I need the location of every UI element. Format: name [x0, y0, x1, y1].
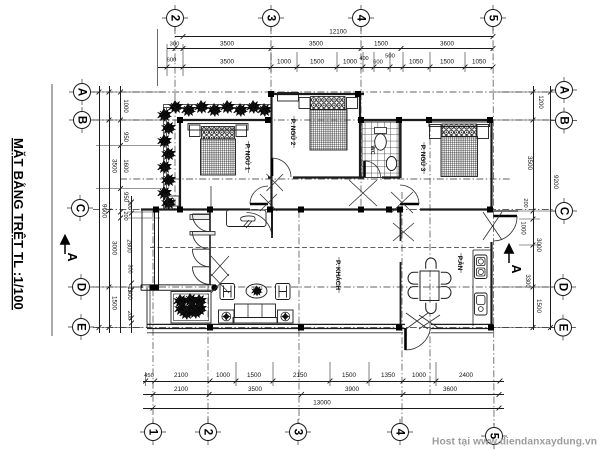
svg-text:C: C	[74, 204, 86, 212]
column	[298, 325, 304, 331]
column	[426, 117, 432, 123]
balcony parapet top	[163, 104, 271, 106]
svg-text:2: 2	[169, 15, 181, 21]
terrace planter box	[171, 292, 211, 324]
svg-text:P. KHÁCH: P. KHÁCH	[334, 260, 343, 290]
column	[488, 325, 494, 331]
grid line 4a mid (vertical)	[429, 125, 431, 395]
grid bubble 3 top	[258, 5, 284, 31]
svg-text:600: 600	[167, 58, 177, 64]
folding door hall arcs	[192, 214, 210, 232]
svg-text:3500: 3500	[526, 156, 533, 171]
dining chair bottom	[426, 303, 436, 314]
svg-text:1500: 1500	[247, 372, 262, 379]
balcony plants left column	[157, 108, 172, 122]
svg-text:1000: 1000	[216, 372, 231, 379]
folding door leaf bar lower	[190, 232, 215, 236]
grid line A (horizontal)	[93, 91, 553, 93]
grid line 2 top (vertical)	[174, 27, 176, 209]
left chain 1000/950/1600/950/200	[120, 86, 122, 333]
sofa side table left	[219, 310, 235, 323]
grid line 4 bottom (vertical)	[401, 192, 403, 425]
svg-text:B: B	[558, 116, 570, 124]
round column	[211, 285, 217, 291]
bed B3 side table left	[430, 125, 442, 139]
svg-text:3600: 3600	[440, 41, 455, 48]
grid bubble A right	[551, 77, 577, 103]
svg-text:4: 4	[394, 429, 406, 436]
grid line 2 bottom (vertical)	[207, 284, 209, 425]
svg-text:P. NGỦ 1: P. NGỦ 1	[244, 144, 253, 171]
bed B2 wardrobe	[278, 93, 299, 102]
grid line 4 top (vertical)	[360, 27, 362, 211]
bed B3 side table right	[477, 125, 489, 139]
grid bubble 5 bottom	[481, 423, 507, 449]
svg-text:1350: 1350	[381, 372, 396, 379]
sofa	[235, 304, 276, 318]
door X hall 2	[211, 274, 229, 293]
wall top main (B line) right part	[359, 119, 493, 121]
grid bubble C left	[67, 195, 93, 221]
svg-text:300: 300	[127, 264, 133, 273]
door X entry 1	[406, 313, 428, 329]
wall bedroom2 top	[268, 93, 364, 95]
bed B3 headboard	[429, 122, 490, 127]
svg-text:D: D	[557, 283, 569, 291]
door WC arc	[365, 161, 381, 177]
right chain 1200/3500/200/1000/3000/3300/1500	[533, 86, 535, 330]
bottom dimension row 450/2100/1000/1500/2150/1500/1350/1000/2400	[143, 381, 504, 383]
svg-text:2100: 2100	[174, 372, 189, 379]
dimension row 300/3500/3500/1500/3600	[167, 48, 493, 50]
wall east (grid 5)	[490, 120, 492, 211]
svg-text:C: C	[558, 207, 570, 215]
bed B2 mattress	[310, 110, 347, 151]
grid line E (horizontal)	[93, 327, 553, 329]
svg-text:3600: 3600	[443, 386, 458, 393]
main entry door leaf	[404, 328, 407, 350]
grid bubble 1 bottom	[140, 419, 166, 445]
svg-text:A: A	[76, 88, 88, 96]
door X porch right	[483, 212, 502, 240]
wall hall west outer	[141, 210, 143, 289]
svg-text:A: A	[509, 264, 523, 273]
WC toilet tank	[375, 128, 387, 134]
svg-text:2100: 2100	[174, 386, 189, 393]
svg-text:2400: 2400	[459, 372, 474, 379]
dimension row total 12100	[175, 36, 493, 38]
cabinet object	[241, 216, 255, 221]
column	[207, 325, 213, 331]
grid bubble A left	[69, 79, 95, 105]
svg-text:A: A	[558, 86, 570, 94]
svg-text:2: 2	[202, 429, 214, 435]
grid line C (horizontal)	[93, 209, 553, 211]
section marker A left	[61, 236, 69, 255]
dining table	[420, 271, 439, 301]
column	[396, 117, 402, 123]
WC toilet bowl	[375, 134, 387, 150]
WC tiled floor	[362, 122, 399, 178]
column	[177, 117, 183, 123]
svg-text:1600: 1600	[122, 159, 128, 173]
armchair left	[220, 284, 235, 300]
armchair right	[276, 284, 291, 300]
grid line 3 bottom (vertical)	[298, 211, 300, 425]
grid bubble B right	[551, 108, 577, 134]
bed B1 mattress	[201, 139, 236, 175]
bed B1 side table left	[190, 125, 201, 137]
door X corridor-living	[260, 194, 277, 211]
coffee table with plant	[246, 284, 267, 298]
bed B3 pillows	[442, 124, 477, 137]
svg-text:3500: 3500	[248, 386, 263, 393]
grid line 5 (vertical)	[493, 27, 494, 425]
closet line bedroom1	[210, 186, 212, 208]
bed B3 mattress	[441, 137, 478, 177]
svg-text:E: E	[557, 324, 569, 332]
svg-text:B: B	[76, 116, 88, 124]
svg-text:200: 200	[522, 198, 528, 207]
WC washbasin	[386, 157, 396, 171]
bottom dimension row 2100/3500/3900/3600	[143, 394, 504, 396]
svg-text:MẶT BẰNG TRỆT TL :1/100: MẶT BẰNG TRỆT TL :1/100	[11, 138, 26, 310]
svg-text:1050: 1050	[409, 59, 424, 66]
column	[358, 207, 364, 213]
column	[207, 207, 213, 213]
left chain 3500/3000/1500	[109, 86, 111, 333]
step edge below south wall	[147, 332, 403, 334]
dining chairs left	[408, 272, 418, 284]
terrace west edge below D	[146, 288, 148, 328]
wall D line hall south	[141, 284, 216, 286]
svg-text:4: 4	[355, 15, 367, 22]
column	[386, 207, 392, 213]
svg-text:9200: 9200	[552, 175, 559, 190]
svg-text:1500: 1500	[535, 299, 542, 314]
door X hall 1	[211, 256, 229, 276]
wall C line (y=209.5)	[141, 208, 250, 210]
column	[177, 207, 183, 213]
wall bed1/bed2 (grid 3)	[270, 94, 272, 209]
grid bubble D left	[68, 274, 94, 300]
svg-text:13000: 13000	[313, 400, 331, 407]
svg-text:3: 3	[292, 429, 304, 435]
bed B1 pillows	[202, 127, 235, 140]
svg-text:P.ĂN: P.ĂN	[456, 256, 465, 271]
wall corridor south (y=177)	[268, 176, 272, 178]
svg-text:1500: 1500	[310, 59, 325, 66]
grid bubble 2 bottom	[195, 419, 221, 445]
grid bubble 2 top	[162, 5, 188, 31]
svg-text:2150: 2150	[293, 372, 308, 379]
bed B2 side table left	[299, 98, 310, 109]
svg-text:600: 600	[373, 60, 383, 66]
svg-text:5: 5	[487, 15, 499, 22]
bed B2 side table right	[347, 98, 358, 109]
grid bubble B left	[69, 107, 95, 133]
column	[298, 207, 304, 213]
column	[153, 207, 159, 213]
svg-text:1000: 1000	[412, 372, 427, 379]
svg-text:200: 200	[126, 200, 132, 209]
column	[265, 117, 271, 123]
svg-text:3500: 3500	[111, 159, 118, 174]
svg-text:200: 200	[122, 211, 128, 220]
grid bubble E right	[550, 315, 576, 341]
svg-text:3500: 3500	[220, 41, 235, 48]
svg-text:1050: 1050	[472, 59, 487, 66]
door corridor-living lower arc	[247, 213, 273, 239]
door corridor-living (in C wall) leaf	[250, 203, 268, 206]
left chain 9600	[99, 86, 101, 333]
grid bubble C right	[551, 198, 577, 224]
svg-text:1500: 1500	[440, 59, 455, 66]
wall hall east (folding door wall)	[209, 212, 211, 285]
svg-text:3500: 3500	[309, 41, 324, 48]
door X dining opening	[393, 223, 414, 241]
grid bubble D right	[550, 274, 576, 300]
column	[267, 207, 273, 213]
svg-text:WC: WC	[369, 146, 375, 155]
grid line mid-corridor	[120, 178, 510, 180]
column	[397, 207, 403, 213]
svg-text:A: A	[65, 252, 79, 261]
svg-text:300: 300	[170, 42, 180, 48]
dining chairs right	[441, 272, 451, 284]
svg-text:2800: 2800	[126, 239, 132, 253]
door corridor-living lower leaf	[271, 213, 273, 239]
column	[153, 285, 159, 291]
grid bubble 3 bottom	[285, 419, 311, 445]
overhang dashed line	[150, 247, 491, 249]
section marker A right	[505, 245, 513, 264]
column	[487, 117, 493, 123]
svg-text:1000: 1000	[520, 221, 526, 235]
svg-text:9600: 9600	[101, 204, 108, 219]
svg-text:E: E	[75, 323, 87, 331]
door bedroom3 leaf	[400, 203, 419, 206]
bottom dimension row total 13000	[143, 408, 504, 410]
sofa side table right	[278, 310, 294, 323]
kitchen sink	[475, 293, 488, 315]
porch edge top right	[493, 210, 518, 212]
wall bed2/WC (grid 4)	[359, 94, 361, 178]
svg-text:P. NGỦ 3: P. NGỦ 3	[419, 145, 428, 172]
porch door right arc	[494, 216, 518, 241]
kitchen counter edge	[472, 250, 474, 326]
main entry door arc	[406, 328, 431, 351]
door bedroom2 leaf	[271, 158, 274, 176]
right chain 9200	[550, 86, 552, 330]
svg-text:1500: 1500	[374, 41, 389, 48]
wall top main (B line) left part	[178, 119, 272, 121]
wall WC east	[399, 120, 401, 178]
bed B2 pillows	[311, 97, 346, 110]
balcony plants top row	[168, 100, 183, 114]
door bedroom2 arc	[272, 158, 291, 177]
door X bedroom2	[267, 174, 284, 191]
svg-text:1000: 1000	[343, 59, 358, 66]
svg-text:3300: 3300	[524, 274, 530, 288]
right extension lines	[496, 91, 556, 93]
grid bubble E left	[68, 314, 94, 340]
column	[487, 207, 493, 213]
svg-text:1500: 1500	[342, 372, 357, 379]
grid bubble 4 top	[348, 5, 374, 31]
planter pot at balcony end	[164, 196, 180, 206]
svg-text:3900: 3900	[345, 386, 360, 393]
svg-text:1200: 1200	[537, 95, 543, 109]
kitchen stove	[475, 255, 488, 279]
svg-text:1500: 1500	[111, 296, 118, 311]
door bedroom3 arc	[400, 185, 419, 204]
wall bottom (E line)	[147, 323, 405, 325]
wall hall west inner double	[154, 210, 156, 289]
svg-text:D: D	[75, 283, 87, 291]
door X bedroom3	[391, 192, 413, 213]
svg-text:P. NGỦ 2: P. NGỦ 2	[289, 119, 298, 146]
column	[396, 325, 402, 331]
svg-text:400: 400	[359, 56, 368, 62]
bed B1 side table right	[236, 125, 247, 137]
column	[358, 117, 364, 123]
bed B1 headboard	[188, 124, 248, 131]
svg-text:12100: 12100	[329, 29, 347, 36]
bottom dimension extension lines	[145, 372, 147, 386]
left extension lines	[96, 91, 163, 93]
door X entry 2	[419, 315, 440, 329]
grid line B (horizontal)	[93, 119, 553, 121]
grid bubble 4 bottom	[387, 419, 413, 445]
svg-text:1000: 1000	[277, 59, 292, 66]
svg-text:1200: 1200	[126, 286, 132, 300]
door corridor-living arc	[250, 186, 268, 204]
svg-text:3000: 3000	[111, 241, 118, 256]
svg-text:3: 3	[265, 15, 277, 21]
door WC leaf	[363, 161, 366, 177]
dimension row 600/3500/1000/1500/1000/400/600/500/1050/1500/1050	[158, 67, 493, 69]
balcony parapet left	[163, 105, 165, 209]
section line A-A vertical trace left	[51, 84, 53, 336]
column	[355, 91, 361, 97]
grid line 1 bottom (vertical)	[152, 210, 154, 425]
svg-text:1000: 1000	[122, 99, 128, 113]
svg-text:950: 950	[122, 132, 128, 143]
svg-text:3500: 3500	[220, 59, 235, 66]
porch door right leaf	[494, 215, 518, 217]
door X corridor below WC	[349, 180, 377, 206]
column	[150, 285, 156, 291]
svg-text:200: 200	[126, 311, 132, 320]
grid line 3 top (vertical)	[270, 27, 272, 211]
grid line D (horizontal)	[93, 286, 553, 288]
grid bubble 5 top	[480, 5, 506, 31]
folding door leaf bar upper	[190, 215, 210, 220]
wall bedroom1 west	[179, 120, 181, 209]
top dimension extension lines	[157, 29, 159, 86]
dining chair top	[426, 258, 436, 269]
column	[268, 91, 274, 97]
left chain 200/2800/300/1200/200	[131, 196, 133, 333]
svg-text:1: 1	[147, 429, 159, 436]
svg-text:Host tại www.diendanxaydung.vn: Host tại www.diendanxaydung.vn	[432, 437, 597, 448]
shoe cabinet	[227, 210, 267, 227]
partition living/dining	[400, 212, 402, 241]
